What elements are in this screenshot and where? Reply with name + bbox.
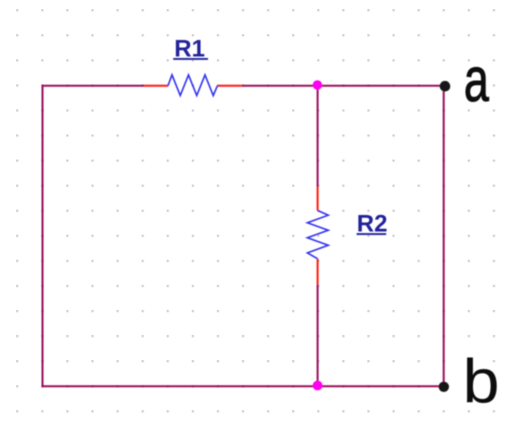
svg-text:a: a (464, 46, 489, 115)
svg-text:b: b (463, 348, 500, 417)
